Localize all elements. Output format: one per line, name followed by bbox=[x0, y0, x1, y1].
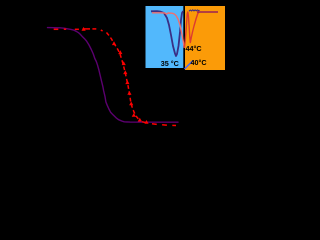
inset red DSC curve right part (crimson, 44C dip in orange panel) bbox=[184, 12, 199, 48]
red triangle markers bbox=[112, 41, 149, 124]
inset right panel (orange) bbox=[185, 6, 225, 70]
inset left panel (blue) bbox=[146, 6, 184, 68]
red marker on top flat bbox=[82, 27, 86, 31]
svg-text:44°C: 44°C bbox=[186, 44, 202, 53]
inset navy DSC curve (35C) bbox=[151, 11, 183, 56]
red dashed curve: descent bbox=[107, 33, 142, 122]
inset frame bbox=[142, 0, 230, 74]
inset red DSC curve left part (pink, in blue panel) bbox=[152, 13, 184, 48]
purple release curve bbox=[48, 28, 179, 123]
inset navy noisy baseline in orange panel bbox=[189, 10, 200, 11]
inset maroon baseline right bbox=[197, 11, 218, 13]
svg-text:35 °C: 35 °C bbox=[161, 59, 179, 68]
red dashed curve: bottom flat dashes bbox=[142, 122, 176, 126]
red dashed curve: top flat dashes bbox=[54, 29, 103, 31]
inset blue diagonal (40C baseline) bbox=[185, 61, 194, 70]
svg-text:40°C: 40°C bbox=[191, 58, 207, 67]
